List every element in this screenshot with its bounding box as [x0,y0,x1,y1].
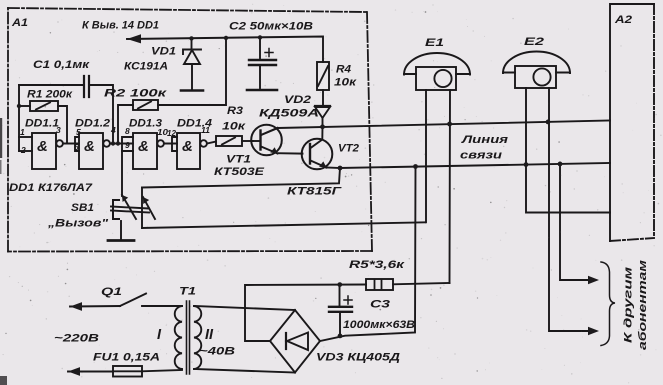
svg-text:1000мк×63В: 1000мк×63В [343,319,415,331]
svg-text:10к: 10к [222,121,247,133]
svg-text:12: 12 [167,128,176,138]
svg-text:R1 200к: R1 200к [27,89,74,101]
svg-text:E1: E1 [425,37,444,49]
svg-text:абонентам: абонентам [637,260,649,350]
svg-text:КТ815Г: КТ815Г [287,186,343,198]
svg-text:A1: A1 [11,17,28,29]
svg-text:10к: 10к [334,77,358,89]
svg-text:SB1: SB1 [71,202,94,214]
svg-text:К Выв. 14 DD1: К Выв. 14 DD1 [82,20,159,32]
svg-text:&: & [138,138,149,155]
svg-text:VD2: VD2 [284,94,311,106]
svg-text:T1: T1 [179,286,196,298]
svg-text:A2: A2 [614,14,632,26]
svg-text:2: 2 [20,145,26,155]
svg-text:КТ503Е: КТ503Е [214,166,265,178]
svg-text:DD1.3: DD1.3 [129,118,162,130]
svg-text:DD1.2: DD1.2 [75,118,110,130]
svg-text:&: & [182,138,193,155]
svg-text:КС191А: КС191А [124,61,168,73]
svg-text:DD1.4: DD1.4 [177,118,212,130]
svg-text:C1 0,1мк: C1 0,1мк [33,59,91,71]
svg-text:К другим: К другим [623,267,635,343]
svg-text:&: & [37,138,48,155]
svg-text:VD3 КЦ405Д: VD3 КЦ405Д [316,352,400,364]
svg-text:II: II [205,327,214,343]
svg-text:связи: связи [460,150,502,162]
svg-text:Линия: Линия [461,134,509,146]
svg-text:DD1 К176ЛА7: DD1 К176ЛА7 [9,182,93,194]
svg-text:DD1.1: DD1.1 [25,118,59,130]
svg-text:„Вызов": „Вызов" [47,218,109,230]
svg-text:C3: C3 [370,299,390,311]
svg-text:R3: R3 [227,105,243,117]
svg-text:R2 100к: R2 100к [104,88,168,100]
svg-text:Q1: Q1 [101,286,122,298]
svg-text:~220В: ~220В [54,333,99,345]
svg-text:VT1: VT1 [226,154,251,166]
svg-text:~40В: ~40В [199,346,235,358]
svg-text:9: 9 [125,140,130,150]
svg-text:C2 50мк×10В: C2 50мк×10В [229,21,313,33]
svg-text:R4: R4 [336,64,351,76]
svg-text:&: & [84,138,95,155]
svg-text:КД509А: КД509А [259,108,319,120]
svg-text:6: 6 [74,142,79,152]
svg-text:4: 4 [110,125,116,135]
svg-text:VD1: VD1 [151,46,176,58]
svg-text:R5*3,6к: R5*3,6к [349,259,406,271]
svg-text:E2: E2 [524,36,544,48]
svg-text:VT2: VT2 [338,143,359,155]
svg-text:FU1 0,15А: FU1 0,15А [93,352,160,364]
